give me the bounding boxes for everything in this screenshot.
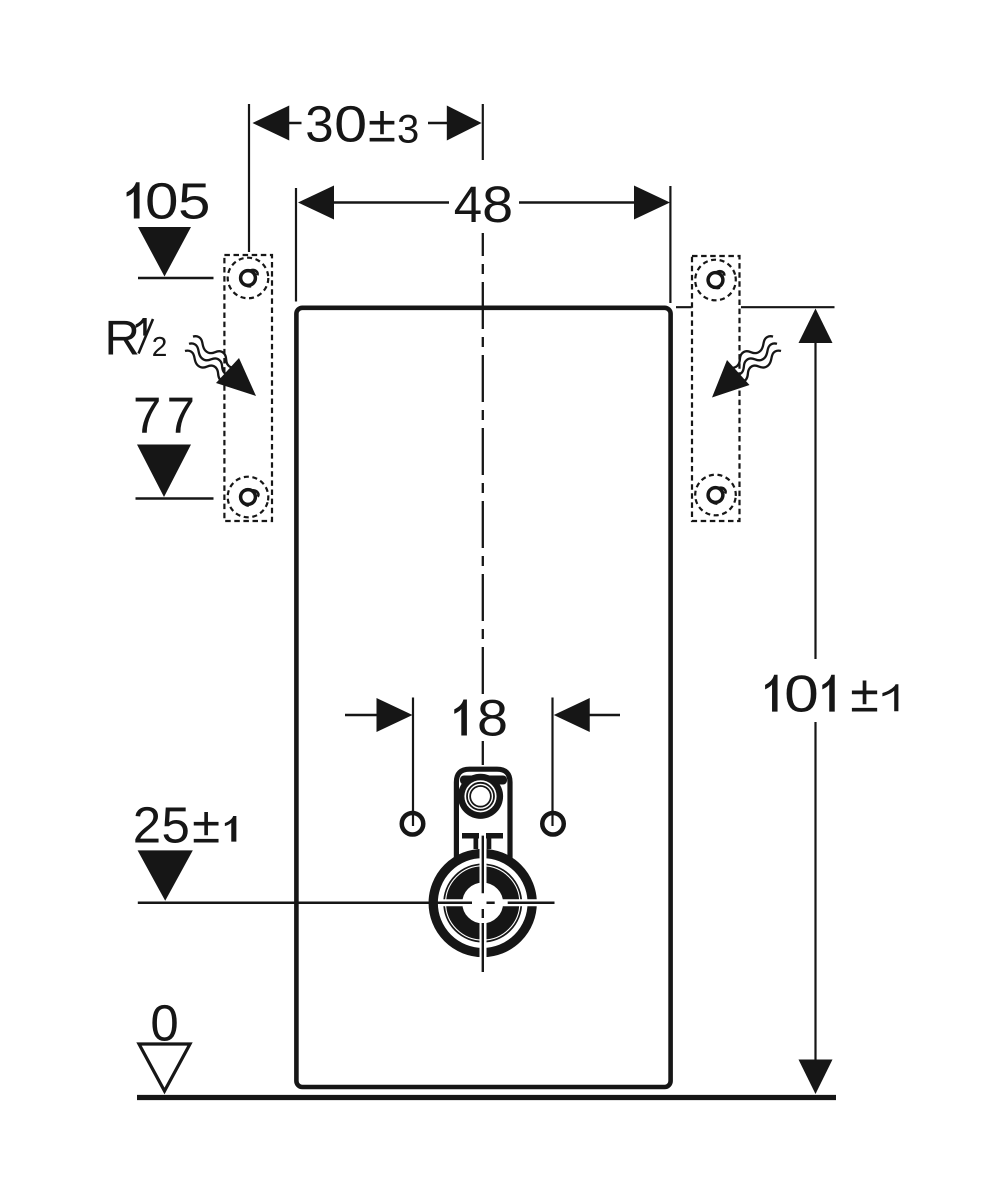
- dim 101 line upper: [814, 342, 816, 659]
- ground line: [137, 1095, 836, 1100]
- dim 30±3 arrow right: [447, 106, 482, 141]
- left anchor plate (dashed): [224, 255, 272, 521]
- dim 18 arrow left (pointing right): [377, 698, 413, 732]
- label 105: [127, 182, 140, 218]
- dim 48 line left: [333, 201, 449, 204]
- dim 30±3 extension line right (centerline top): [482, 104, 484, 160]
- dim 18 boundary line right: [551, 698, 553, 827]
- datum line 105: [138, 277, 214, 280]
- label 18: [454, 700, 467, 736]
- svg-text:77: 77: [133, 387, 200, 444]
- module outline: [296, 308, 670, 1087]
- left plate bottom hole: [223, 472, 273, 522]
- svg-text:4: 4: [454, 176, 482, 233]
- dim 30±3 extension line left: [248, 104, 250, 252]
- anchor hole right: [542, 813, 564, 835]
- dim 18 boundary line left: [412, 698, 414, 827]
- datum triangle 25: [138, 850, 193, 900]
- dim 30±3 arrow left: [253, 106, 290, 141]
- svg-text:0: 0: [784, 666, 819, 724]
- datum line 77: [136, 497, 214, 500]
- datum/centre line 25 (horizontal): [138, 901, 555, 904]
- svg-text:0: 0: [145, 173, 179, 230]
- svg-text:0: 0: [334, 95, 367, 152]
- dim 18 tail left: [345, 714, 378, 717]
- drain bend outer ring: [433, 854, 532, 953]
- dim 30±3 line right stub: [428, 122, 448, 125]
- water supply bracket: [456, 769, 510, 860]
- drain bend thin ring: [444, 864, 521, 941]
- vertical centerline halo: [480, 839, 487, 972]
- dim 48 arrow right: [634, 186, 670, 220]
- horizontal centerline halo: [440, 899, 545, 906]
- datum triangle 77: [137, 445, 191, 498]
- svg-text:±: ±: [192, 797, 220, 854]
- dim 30±3 line left stub: [288, 122, 302, 125]
- svg-text:25: 25: [133, 797, 191, 854]
- svg-text:8: 8: [482, 176, 513, 233]
- svg-text:2: 2: [152, 331, 168, 362]
- dim 48 extension line left: [295, 188, 297, 302]
- svg-text:±: ±: [850, 666, 879, 724]
- vertical centreline of module: [482, 233, 484, 700]
- dim 18 arrow right (pointing left): [554, 698, 590, 732]
- dim 101 line lower: [814, 722, 816, 1060]
- svg-text:5: 5: [178, 173, 210, 230]
- dim 18 tail right: [589, 714, 620, 717]
- label 101±1: [765, 675, 777, 712]
- supply fitting inner rings: [467, 783, 494, 810]
- dim 48 line right: [519, 201, 635, 204]
- bracket bars: [462, 833, 479, 839]
- left flow arrow: [216, 358, 256, 396]
- svg-text:R: R: [105, 312, 140, 366]
- right anchor plate (dashed): [692, 256, 740, 521]
- right plate bottom hole: [693, 472, 739, 518]
- anchor hole left: [402, 813, 424, 835]
- svg-text:±: ±: [368, 95, 396, 152]
- supply collar: [460, 776, 507, 785]
- dim 101 arrow up: [799, 309, 833, 344]
- svg-text:8: 8: [477, 690, 508, 747]
- bracket stubs: [474, 839, 479, 850]
- dim 48 extension line right: [669, 186, 671, 303]
- drain bend donut: [454, 875, 511, 932]
- dim 48 arrow left: [298, 186, 334, 220]
- supply fitting outer ring: [458, 774, 503, 819]
- svg-text:3: 3: [397, 108, 419, 152]
- left plate top hole: [228, 258, 269, 299]
- right gas-flow squiggle: [726, 334, 784, 385]
- svg-text:3: 3: [305, 95, 333, 152]
- dim 101 arrow down: [799, 1060, 833, 1095]
- left gas-flow squiggle: [182, 334, 240, 385]
- right flow arrow: [712, 360, 750, 398]
- datum triangle 105: [138, 227, 191, 277]
- dim 101 extension line top: [676, 306, 835, 308]
- datum triangle 0 (open): [139, 1044, 190, 1091]
- right plate top hole: [692, 256, 739, 303]
